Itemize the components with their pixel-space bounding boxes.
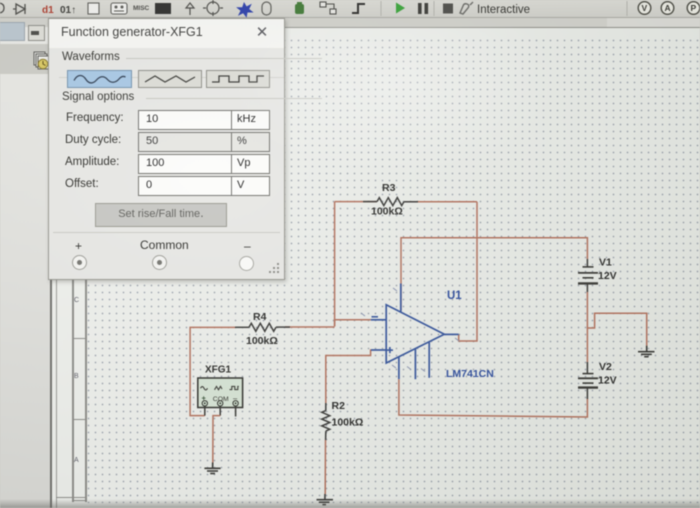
resistor R2 xyxy=(322,403,330,440)
wire R4 output to inverting node xyxy=(335,320,371,327)
minus marker (inverting input) xyxy=(372,316,379,318)
resistor R3 xyxy=(363,198,418,206)
duty cycle row xyxy=(65,134,121,146)
ground (R2) xyxy=(317,494,334,505)
svg-text:U1: U1 xyxy=(447,290,462,302)
wire junction to ground branch xyxy=(587,313,646,345)
svg-text:100kΩ: 100kΩ xyxy=(332,417,364,429)
plus marker (non-inverting input) xyxy=(387,347,393,353)
offset row xyxy=(65,178,99,190)
waveforms group xyxy=(126,58,322,59)
svg-text:V1: V1 xyxy=(599,257,612,269)
svg-text:100kΩ: 100kΩ xyxy=(246,335,278,347)
pause xyxy=(418,3,428,14)
dialog xyxy=(48,18,285,280)
svg-text:100kΩ: 100kΩ xyxy=(371,206,403,218)
wire R3 lead right xyxy=(404,201,477,203)
wire output to R3 right (feedback) xyxy=(459,202,477,341)
layered sheets icon xyxy=(33,51,51,71)
svg-text:R4: R4 xyxy=(253,311,267,323)
sine button (selected) xyxy=(67,70,132,88)
play xyxy=(396,3,405,14)
title bar xyxy=(49,19,284,48)
pane blue box xyxy=(0,22,25,41)
wire R4 right lead to node xyxy=(285,326,335,328)
battery V2 xyxy=(578,362,598,399)
svg-text:V2: V2 xyxy=(599,361,612,373)
wire R2 to non-inverting input xyxy=(326,350,371,403)
pane/canvas separator lines xyxy=(50,20,52,508)
second band xyxy=(0,18,700,28)
triangle button xyxy=(138,70,202,88)
sheet border column xyxy=(72,278,74,502)
wire V- to bottom rail xyxy=(399,379,588,417)
frequency row xyxy=(66,112,124,124)
glare highlight xyxy=(240,27,620,207)
pane small button xyxy=(28,25,45,41)
ground (XFG1) xyxy=(204,463,220,474)
wire V+ supply rail xyxy=(401,238,587,311)
stop xyxy=(443,4,453,14)
set rise/fall button xyxy=(95,203,227,227)
terminals xyxy=(72,255,87,270)
svg-text:12V: 12V xyxy=(598,270,617,282)
wire R4 left vertical from XFG1 xyxy=(190,327,235,415)
section divider xyxy=(53,232,280,233)
top toolbar band xyxy=(0,0,700,18)
svg-text:XFG1: XFG1 xyxy=(205,365,232,376)
op-amp U1 xyxy=(371,284,459,380)
left pane xyxy=(0,27,51,508)
amplitude row xyxy=(65,156,119,168)
wire XFG1 COM to ground xyxy=(213,416,220,463)
wire R3 left (node A vertical from R3 to inverting node) xyxy=(334,202,336,327)
ground (supply common) xyxy=(638,346,655,357)
square button xyxy=(206,70,270,88)
signal options group xyxy=(146,98,322,99)
svg-text:LM741CN: LM741CN xyxy=(446,368,494,380)
function generator XFG1 xyxy=(198,378,243,417)
resistor R4 xyxy=(235,323,290,331)
svg-text:R3: R3 xyxy=(382,182,396,194)
toolbar icons layer xyxy=(0,0,700,18)
battery V1 xyxy=(578,259,598,292)
wire V1 bottom to V2 top xyxy=(586,292,588,362)
svg-text:R2: R2 xyxy=(332,400,346,412)
bottom dark band xyxy=(0,499,700,508)
svg-text:12V: 12V xyxy=(598,375,617,387)
interactive pencil xyxy=(460,2,473,14)
wire R3 lead left xyxy=(335,201,377,203)
pin number marks xyxy=(361,288,459,372)
wire R2 to ground xyxy=(324,440,326,494)
resize grip xyxy=(267,261,281,275)
common row xyxy=(75,239,87,253)
